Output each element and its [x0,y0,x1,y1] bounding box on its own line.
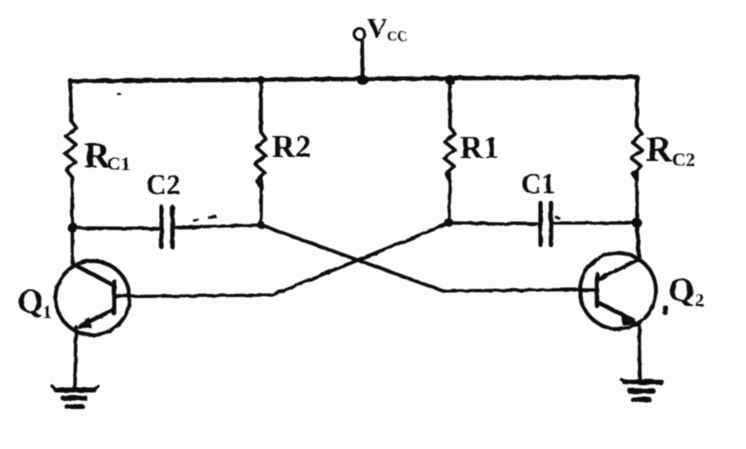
svg-text:R: R [646,129,673,169]
svg-text:CC: CC [387,30,407,45]
svg-text:C2: C2 [672,150,695,171]
svg-text:1: 1 [43,302,52,322]
svg-text:C1: C1 [107,154,130,175]
svg-text:R2: R2 [272,128,311,164]
svg-text:V: V [367,14,387,45]
svg-text:2: 2 [695,290,704,310]
svg-text:Q: Q [668,272,694,309]
svg-text:C2: C2 [146,170,180,201]
svg-text:Q: Q [17,283,43,320]
svg-text:R1: R1 [460,129,499,165]
svg-text:C1: C1 [521,169,555,200]
